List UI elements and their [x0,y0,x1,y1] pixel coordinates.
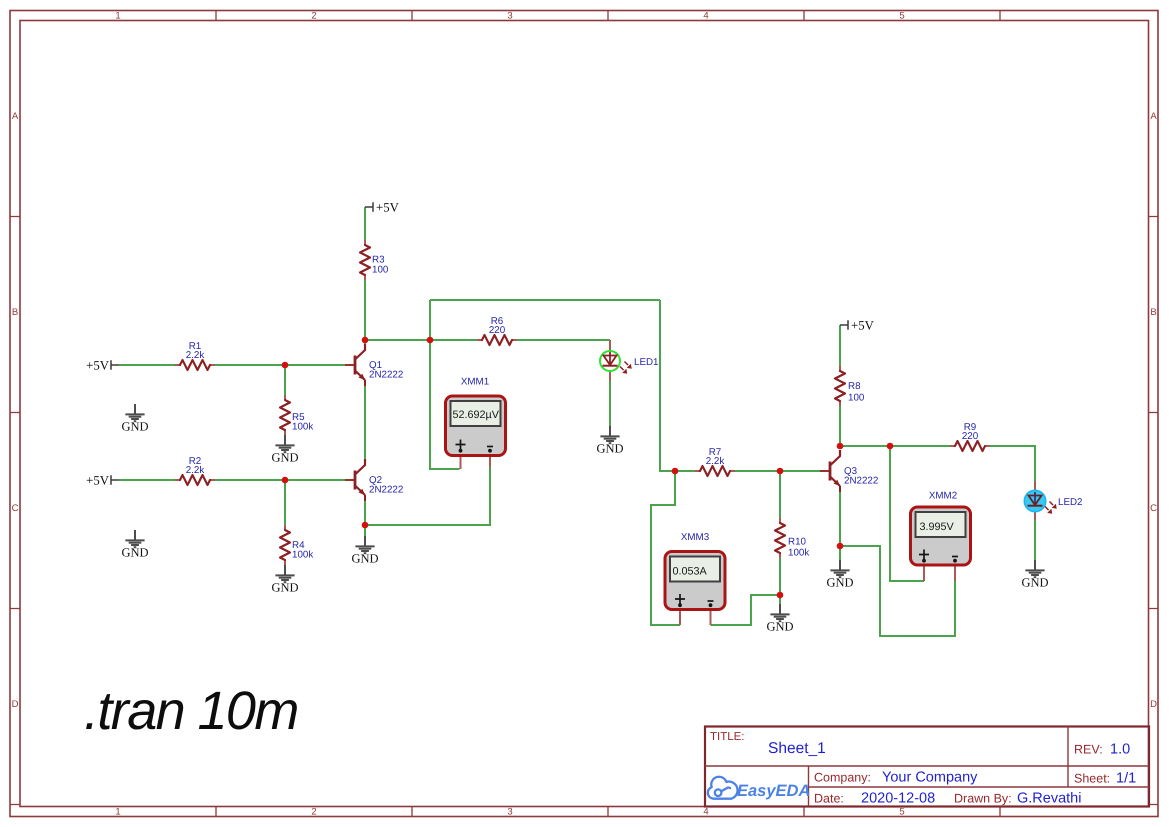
wire +5V flag 1 to R1 [119,364,175,366]
wire +5V flag 2 to R2 [119,479,175,481]
wire Q2 emitter to GND [364,501,366,536]
svg-text:4: 4 [703,807,708,818]
junction node Q2 emitter / XMM1 minus [362,522,369,529]
wire Q3 collector node to R9 [840,445,950,447]
svg-text:1/1: 1/1 [1116,771,1136,787]
ground G6 under LED1 [596,426,623,456]
svg-text:Sheet:: Sheet: [1074,772,1110,786]
junction node Q1 collector [362,337,369,344]
junction node R7 left / XMM3 plus [672,468,679,475]
svg-text:XMM1: XMM1 [461,377,489,388]
wire Q1 collector node to R6 node [365,339,430,341]
ground G3 floating [121,530,148,560]
wire R10 gnd node to XMM3 minus [711,595,781,625]
junction node Q3 emitter / XMM2 minus [837,543,844,550]
wire +5V flag 3 to R3 [364,207,366,240]
frame top column numbers [115,11,904,22]
wire Q2 emitter node to XMM1 minus [365,466,490,525]
wire R6 node down to XMM1 plus [430,300,460,469]
wire Q3 emitter node to XMM2 minus [840,546,955,636]
svg-text:52.692µV: 52.692µV [453,409,500,421]
svg-text:2N2222: 2N2222 [369,370,403,381]
multimeter XMM1 [446,377,506,470]
resistor R7 [695,447,735,476]
resistor R2 [175,456,215,485]
wire LED2 to GND [1034,520,1036,560]
easyeda logo cloud [708,777,738,799]
ground G4 under R4 [271,565,298,595]
svg-text:3.995V: 3.995V [920,521,955,533]
svg-text:100: 100 [848,393,865,404]
power flag +5V 3 [365,201,400,215]
title block rev column divider [1067,727,1069,788]
wire R2 to Q2 base [215,479,345,481]
svg-text:220: 220 [489,325,506,336]
junction node Q1 base / R5 [282,362,289,369]
power flag +5V 2 [86,474,119,488]
wire LED1 to GND [609,381,611,426]
ground G5 under Q2 emitter [351,536,378,566]
junction node Q2 base / R4 [282,477,289,484]
svg-text:220: 220 [962,431,979,442]
svg-text:2.2k: 2.2k [706,456,725,467]
wire R7 node down to R10 [779,471,781,518]
resistor R4 [280,525,313,565]
ground G7 under R10 [766,604,793,634]
ground G2 under R5 [271,435,298,465]
wire node R1 down to R5 [284,365,286,395]
wire R1 to Q1 base [215,364,345,366]
svg-text:D: D [12,699,19,710]
frame bottom column numbers [115,807,904,818]
svg-text:G.Revathi: G.Revathi [1017,791,1081,807]
LED2 [1024,481,1082,520]
wire R3 to Q1 collector node [364,280,366,344]
frame right ruler ticks [1149,217,1159,805]
title block row divider 2 [809,786,1150,788]
svg-text:Company:: Company: [814,771,871,785]
svg-text:2N2222: 2N2222 [844,476,878,487]
svg-text:B: B [12,307,18,318]
junction node R10 bottom / XMM3 minus [777,592,784,599]
svg-text:1: 1 [115,11,120,22]
resistor R10 [775,518,809,559]
wire R7 node to R7 [675,470,695,472]
svg-text:A: A [12,111,19,122]
svg-text:0.053A: 0.053A [673,566,708,578]
junction node Q3 collector / R8 [837,443,844,450]
wire R7 to Q3 base [735,470,820,472]
resistor R3 [360,240,389,280]
resistor R8 [835,366,865,406]
svg-text:R8: R8 [848,381,861,392]
wire +5V flag 4 to R8 [839,325,841,366]
frame bottom ruler ticks [216,807,1000,817]
frame top ruler ticks [216,11,1000,21]
svg-text:2.2k: 2.2k [186,465,205,476]
svg-text:Date:: Date: [814,792,844,806]
svg-text:TITLE:: TITLE: [710,731,745,743]
svg-text:2: 2 [311,807,316,818]
resistor R5 [280,395,313,435]
svg-text:5: 5 [899,807,904,818]
power flag +5V 1 [86,359,119,373]
wire Q3 emitter to GND [839,492,841,560]
svg-text:XMM2: XMM2 [929,491,957,502]
wire R10 to GND node [779,558,781,604]
transistor Q1 [345,344,403,386]
svg-text:100: 100 [372,265,389,276]
wire R7 node to XMM3 plus [651,471,680,625]
wire R8 to Q3 collector node [839,406,841,446]
frame left ruler ticks [10,217,20,805]
svg-text:Sheet_1: Sheet_1 [768,740,826,757]
svg-text:1.0: 1.0 [1110,742,1130,758]
title block outline [705,727,1149,807]
junction node R7 right / R10 [777,468,784,475]
svg-text:4: 4 [703,11,708,22]
svg-text:LED1: LED1 [634,357,659,368]
wire node R2 down to R4 [284,480,286,525]
title block row divider 1 [705,765,1149,767]
wire R6 to LED1 [517,339,610,341]
svg-text:A: A [1150,111,1157,122]
junction node R9 left / XMM2 plus [887,443,894,450]
wire Q1 emitter to Q2 collector [364,385,366,459]
resistor R6 [477,316,517,345]
svg-text:100k: 100k [292,422,313,433]
junction node R6 / feedback [427,337,434,344]
svg-text:B: B [1150,307,1156,318]
title block logo cell divider [808,766,810,807]
svg-text:C: C [1150,503,1157,514]
svg-text:C: C [12,503,19,514]
svg-text:3: 3 [507,11,512,22]
wire R9 node to XMM2 plus [890,446,924,581]
ground G1 floating [121,404,148,434]
svg-text:1: 1 [115,807,120,818]
svg-text:3: 3 [507,807,512,818]
svg-text:XMM3: XMM3 [681,532,710,543]
power flag +5V 4 [840,319,875,333]
multimeter XMM2 [911,491,971,582]
svg-text:EasyEDA: EasyEDA [737,782,810,800]
transistor Q3 [820,450,878,492]
svg-text:LED2: LED2 [1058,497,1083,508]
svg-text:.tran 10m: .tran 10m [84,681,298,741]
multimeter XMM3 [665,532,725,625]
wire feedback down to R7 node [660,300,675,471]
resistor R1 [175,341,215,370]
svg-text:2: 2 [311,11,316,22]
wire R9 to LED2 [990,446,1035,481]
svg-text:2N2222: 2N2222 [369,485,403,496]
svg-text:100k: 100k [292,550,313,561]
ground G9 under LED2 [1021,560,1048,590]
wire upper feedback horizontal [430,299,660,301]
svg-text:REV:: REV: [1074,743,1103,757]
wire R6 node to R6 [430,339,477,341]
ground G8 under Q3 emitter [826,560,853,590]
svg-text:2.2k: 2.2k [186,350,205,361]
svg-text:100k: 100k [788,548,809,559]
svg-text:D: D [1150,699,1157,710]
svg-text:R10: R10 [788,537,807,548]
svg-text:5: 5 [899,11,904,22]
svg-text:2020-12-08: 2020-12-08 [861,791,935,807]
LED1 [600,340,659,381]
svg-text:Drawn By:: Drawn By: [954,792,1012,806]
svg-text:Your Company: Your Company [882,770,978,786]
resistor R9 [950,422,990,451]
frame right row letters [1150,111,1157,710]
frame left row letters [12,111,19,710]
transistor Q2 [345,459,403,501]
